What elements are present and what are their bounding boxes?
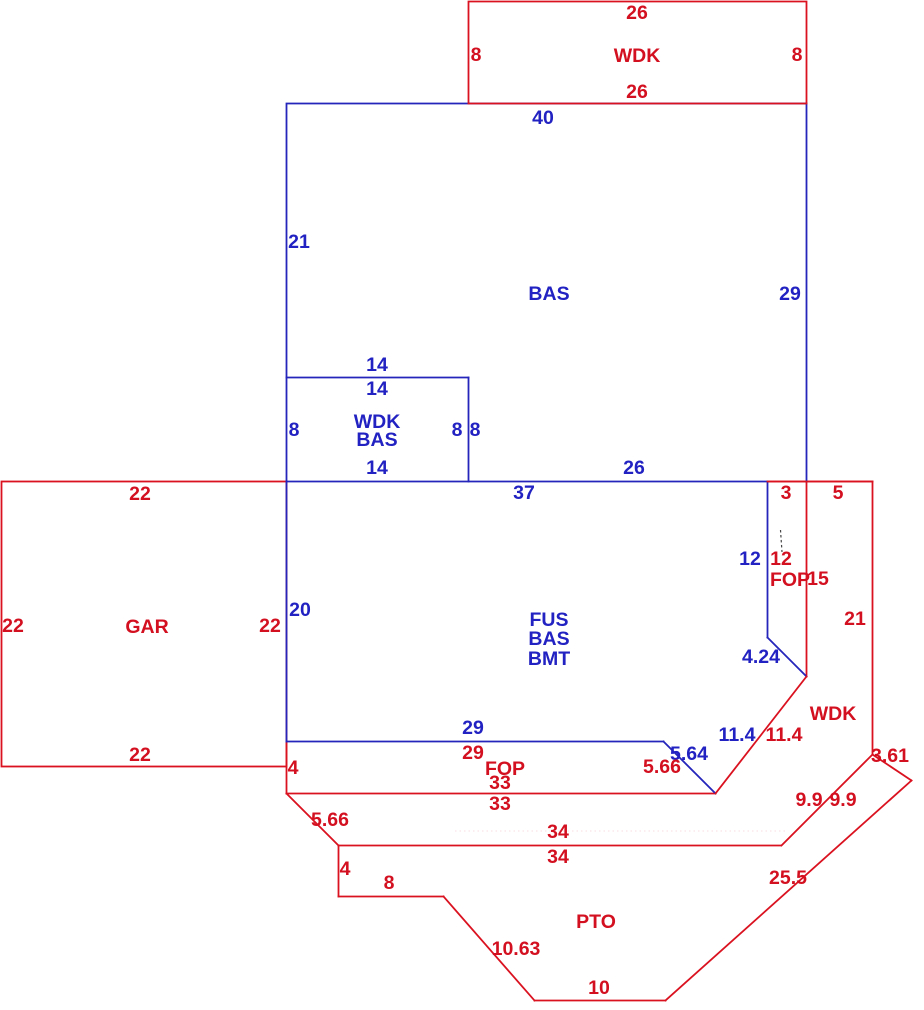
PTO edge 8 bbox=[339, 896, 444, 898]
svg-text:11.4: 11.4 bbox=[719, 724, 756, 746]
svg-text:4: 4 bbox=[288, 757, 299, 779]
svg-text:15: 15 bbox=[807, 568, 829, 590]
FOP bottom edge 33 bbox=[287, 793, 716, 795]
svg-text:33: 33 bbox=[489, 772, 511, 794]
svg-text:26: 26 bbox=[623, 457, 645, 479]
svg-text:BMT: BMT bbox=[528, 648, 570, 670]
dark dashed marker bbox=[781, 530, 783, 552]
svg-text:BAS: BAS bbox=[528, 628, 569, 650]
blue layer bbox=[287, 104, 807, 794]
inner WDK BAS rectangle top bbox=[287, 377, 469, 379]
svg-text:37: 37 bbox=[513, 482, 535, 504]
red layer 2 (on top of blue) bbox=[469, 104, 873, 794]
WDK right edge 21 bbox=[872, 482, 874, 755]
svg-text:40: 40 bbox=[532, 107, 554, 129]
svg-text:9.9: 9.9 bbox=[829, 789, 856, 811]
FUS bottom edge 29 bbox=[287, 741, 664, 743]
FOP right top edge 3+5 bbox=[768, 481, 873, 483]
svg-text:29: 29 bbox=[779, 283, 801, 305]
svg-text:8: 8 bbox=[289, 419, 300, 441]
diagonal 4.24 bbox=[768, 638, 807, 677]
FOP left edge 4 bbox=[286, 742, 288, 794]
faint dotted guide line bbox=[455, 830, 786, 832]
diagonal 11.4 bbox=[716, 677, 807, 794]
svg-text:9.9: 9.9 bbox=[795, 789, 822, 811]
svg-text:12: 12 bbox=[739, 548, 761, 570]
svg-text:34: 34 bbox=[547, 846, 569, 868]
svg-text:8: 8 bbox=[792, 44, 803, 66]
svg-text:8: 8 bbox=[471, 44, 482, 66]
svg-text:26: 26 bbox=[626, 2, 648, 24]
diagonal 5.64 bbox=[664, 742, 716, 794]
svg-text:22: 22 bbox=[259, 615, 281, 637]
diagonal 3.61 bbox=[873, 755, 912, 781]
svg-text:WDK: WDK bbox=[810, 703, 857, 725]
svg-text:5.66: 5.66 bbox=[311, 809, 349, 831]
svg-text:WDK: WDK bbox=[614, 45, 661, 67]
strip bottom edge 34 bbox=[339, 845, 781, 847]
PTO bottom edge 10 bbox=[535, 1000, 666, 1002]
FUS top edge 37 bbox=[287, 481, 768, 483]
svg-text:10.63: 10.63 bbox=[492, 938, 541, 960]
FOP/WDK top red portion of main line bbox=[768, 481, 873, 483]
svg-text:8: 8 bbox=[384, 872, 395, 894]
svg-text:34: 34 bbox=[547, 821, 569, 843]
svg-text:11.4: 11.4 bbox=[766, 724, 803, 746]
svg-text:12: 12 bbox=[770, 548, 792, 570]
svg-text:8: 8 bbox=[452, 419, 463, 441]
svg-text:4: 4 bbox=[340, 858, 351, 880]
BAS rectangle bbox=[287, 104, 807, 482]
svg-text:GAR: GAR bbox=[125, 616, 168, 638]
svg-text:BAS: BAS bbox=[356, 429, 397, 451]
svg-text:21: 21 bbox=[844, 608, 866, 630]
svg-text:3.61: 3.61 bbox=[871, 745, 909, 767]
svg-text:3: 3 bbox=[781, 482, 792, 504]
FUS left edge 20 bbox=[286, 482, 288, 742]
diagonal 5.66 left bbox=[287, 794, 339, 846]
svg-text:8: 8 bbox=[470, 419, 481, 441]
svg-text:14: 14 bbox=[366, 354, 388, 376]
svg-text:5: 5 bbox=[833, 482, 844, 504]
svg-text:5.66: 5.66 bbox=[643, 756, 681, 778]
svg-text:25.5: 25.5 bbox=[769, 867, 807, 889]
svg-text:20: 20 bbox=[289, 599, 311, 621]
svg-text:FOP: FOP bbox=[770, 569, 810, 591]
FOP right edge 15 bbox=[806, 482, 808, 677]
WDK top deck bottom edge 26 bbox=[469, 103, 807, 105]
svg-text:14: 14 bbox=[366, 457, 388, 479]
svg-text:10: 10 bbox=[588, 977, 610, 999]
svg-text:22: 22 bbox=[129, 483, 151, 505]
svg-text:29: 29 bbox=[462, 717, 484, 739]
GAR garage rectangle bbox=[2, 482, 287, 767]
WDK top deck rectangle sides bbox=[469, 2, 807, 104]
diagonal 9.9 bbox=[782, 755, 873, 846]
svg-text:22: 22 bbox=[129, 744, 151, 766]
diagonal 10.63 bbox=[444, 897, 535, 1001]
svg-text:14: 14 bbox=[366, 378, 388, 400]
svg-text:33: 33 bbox=[489, 793, 511, 815]
svg-text:4.24: 4.24 bbox=[742, 646, 780, 668]
diagonal 25.5 bbox=[666, 781, 912, 1001]
svg-text:BAS: BAS bbox=[528, 283, 569, 305]
svg-text:PTO: PTO bbox=[576, 911, 616, 933]
inner WDK BAS rectangle right 8 bbox=[468, 378, 470, 482]
PTO left edge 4 bbox=[338, 846, 340, 897]
svg-text:26: 26 bbox=[626, 81, 648, 103]
svg-text:29: 29 bbox=[462, 742, 484, 764]
svg-text:22: 22 bbox=[2, 615, 24, 637]
svg-text:21: 21 bbox=[288, 231, 310, 253]
FUS right edge 12 bbox=[767, 482, 769, 638]
